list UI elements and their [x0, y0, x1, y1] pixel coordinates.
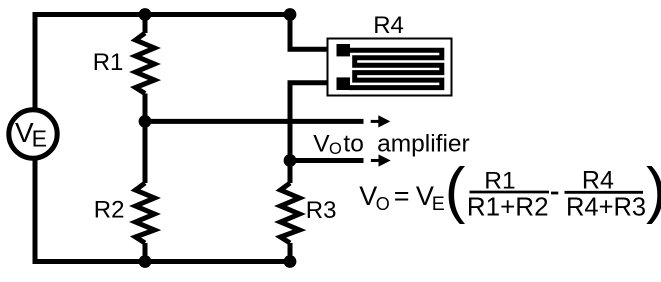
svg-text:E: E [432, 193, 445, 215]
svg-text:(: ( [445, 156, 466, 225]
svg-text:V: V [359, 181, 377, 211]
svg-text:R4+R3: R4+R3 [566, 193, 646, 221]
svg-text:R2: R2 [94, 197, 125, 224]
svg-text:R4: R4 [373, 12, 404, 39]
svg-text:): ) [646, 156, 661, 225]
svg-text:R4: R4 [582, 167, 614, 195]
svg-text:R3: R3 [306, 197, 337, 224]
svg-text:V: V [313, 131, 330, 158]
svg-text:amplifier: amplifier [377, 131, 470, 158]
svg-text:R1: R1 [93, 49, 124, 76]
svg-text:=: = [394, 181, 410, 211]
svg-text:to: to [343, 131, 363, 158]
svg-text:E: E [32, 126, 47, 152]
svg-text:O: O [376, 194, 390, 214]
svg-text:O: O [329, 140, 342, 158]
svg-text:R1+R2: R1+R2 [467, 191, 549, 221]
